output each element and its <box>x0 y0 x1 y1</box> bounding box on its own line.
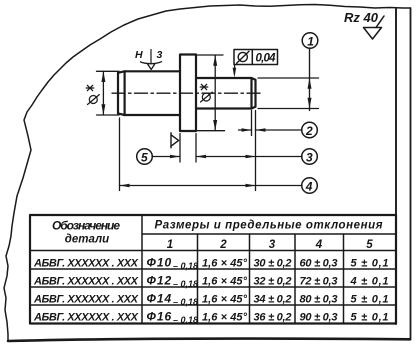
dimension 4 line <box>120 185 303 187</box>
svg-text:– 0,18: – 0,18 <box>173 315 198 325</box>
right cylinder outline <box>196 78 256 109</box>
dimension 5 extension line (flange left face) <box>179 134 181 163</box>
svg-text:2: 2 <box>305 124 313 138</box>
svg-text:5: 5 <box>366 239 373 251</box>
table row lines <box>30 234 396 305</box>
callout circle 1 <box>302 33 318 49</box>
svg-text:5 ± 0,1: 5 ± 0,1 <box>351 258 389 270</box>
svg-text:– 0,18: – 0,18 <box>173 297 198 307</box>
surface finish symbol on flange left face <box>171 133 179 148</box>
svg-text:32 ± 0,2: 32 ± 0,2 <box>254 276 292 288</box>
svg-text:Ф16: Ф16 <box>147 310 173 324</box>
svg-text:Обозначение: Обозначение <box>52 219 120 233</box>
callout circle 3 <box>302 149 318 165</box>
sheet inner frame right line <box>395 9 397 324</box>
flange diameter dimension extension lines <box>198 55 225 131</box>
sheet bottom frame line <box>8 339 410 341</box>
svg-text:5 ± 0,1: 5 ± 0,1 <box>351 312 389 324</box>
dimension 2 extension lines <box>252 111 256 191</box>
svg-text:Ф12: Ф12 <box>147 274 173 288</box>
svg-text:Ф10: Ф10 <box>147 256 173 270</box>
flange diameter label (asterisk and phi) <box>200 84 212 102</box>
svg-text:Ф14: Ф14 <box>147 292 173 306</box>
svg-text:80 ± 0,3: 80 ± 0,3 <box>300 294 338 306</box>
svg-text:АБВГ. ХХХХХХ . ХХХ: АБВГ. ХХХХХХ . ХХХ <box>33 312 139 324</box>
tolerance frame <box>234 50 278 65</box>
svg-text:3: 3 <box>306 150 313 164</box>
svg-text:– 0,18: – 0,18 <box>173 279 198 289</box>
svg-text:2: 2 <box>219 239 227 251</box>
svg-text:3: 3 <box>269 239 276 251</box>
table data rows <box>33 256 389 326</box>
svg-text:4 ± 0,1: 4 ± 0,1 <box>350 276 389 288</box>
marking symbol H-line-3 with open triangle <box>150 50 152 63</box>
svg-text:5 ± 0,1: 5 ± 0,1 <box>351 294 389 306</box>
sheet outer right edge <box>410 8 412 340</box>
tolerance symbol (circle with slash) <box>238 52 247 61</box>
callout circle 2 <box>302 122 318 138</box>
svg-text:72 ± 0,3: 72 ± 0,3 <box>300 276 338 288</box>
svg-text:1: 1 <box>307 34 314 48</box>
svg-text:30 ± 0,2: 30 ± 0,2 <box>254 258 292 270</box>
svg-text:Н: Н <box>135 49 143 61</box>
svg-text:1,6 × 45°: 1,6 × 45° <box>202 258 248 270</box>
svg-text:Размеры и предельные отклонени: Размеры и предельные отклонения <box>155 220 383 232</box>
svg-text:5: 5 <box>141 150 148 164</box>
left cylinder outline <box>118 71 180 115</box>
dimension 3 line <box>196 156 302 158</box>
dimension 3 extension line (flange right face) <box>195 134 197 163</box>
dimension 4 extension line (left end face) <box>119 118 121 191</box>
left diameter label (asterisk and phi) <box>86 85 99 104</box>
table outer border <box>30 215 396 324</box>
svg-text:34 ± 0,2: 34 ± 0,2 <box>254 294 292 306</box>
center line <box>112 92 262 94</box>
svg-text:60 ± 0,3: 60 ± 0,3 <box>300 258 338 270</box>
table column lines <box>142 215 344 324</box>
callout circle 5 <box>137 149 153 165</box>
table column numbers <box>167 239 374 251</box>
Rz40 roughness symbol <box>364 16 385 39</box>
svg-text:АБВГ. ХХХХХХ . ХХХ: АБВГ. ХХХХХХ . ХХХ <box>33 276 139 288</box>
svg-text:4: 4 <box>315 239 323 251</box>
callout circle 4 <box>302 178 318 194</box>
svg-text:1,6 × 45°: 1,6 × 45° <box>202 294 248 306</box>
dimension 1 line <box>309 48 311 111</box>
svg-text:Rz 40: Rz 40 <box>344 10 379 25</box>
svg-text:1: 1 <box>167 239 173 251</box>
svg-text:0,04: 0,04 <box>256 53 277 65</box>
svg-text:4: 4 <box>305 179 313 193</box>
svg-text:36 ± 0,2: 36 ± 0,2 <box>254 312 292 324</box>
dimension 2 line with outside arrows <box>239 129 252 131</box>
dimension 5 line with outside arrow <box>152 156 180 158</box>
svg-text:90 ± 0,3: 90 ± 0,3 <box>300 312 338 324</box>
svg-text:детали: детали <box>65 234 109 246</box>
svg-text:– 0,18: – 0,18 <box>173 261 198 271</box>
dimension 1 extension lines <box>258 78 319 109</box>
svg-text:3: 3 <box>157 49 163 61</box>
svg-text:АБВГ. ХХХХХХ . ХХХ: АБВГ. ХХХХХХ . ХХХ <box>33 258 139 270</box>
tolerance leader arrow <box>233 65 235 75</box>
flange outline <box>180 55 196 132</box>
svg-text:1,6 × 45°: 1,6 × 45° <box>202 312 248 324</box>
left diameter dimension extension lines <box>97 71 120 115</box>
svg-text:1,6 × 45°: 1,6 × 45° <box>202 276 248 288</box>
svg-text:АБВГ. ХХХХХХ . ХХХ: АБВГ. ХХХХХХ . ХХХ <box>33 294 139 306</box>
